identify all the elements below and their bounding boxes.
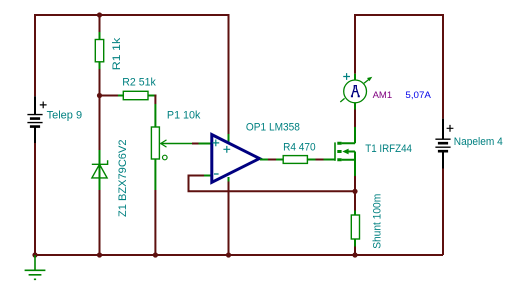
node junction R1 top xyxy=(97,12,102,17)
transistor Q1 T1 IRFZ44 xyxy=(335,127,355,176)
wire ammeter to drain xyxy=(354,110,356,128)
resistor Shunt xyxy=(351,211,359,247)
wire R2 to P1 corner xyxy=(154,95,156,105)
svg-text:Telep 9: Telep 9 xyxy=(47,110,82,122)
zener diode Z1 xyxy=(92,150,108,190)
svg-text:R2 51k: R2 51k xyxy=(122,77,156,89)
svg-text:Z1 BZX79C6V2: Z1 BZX79C6V2 xyxy=(117,140,129,218)
op-amp U1 triangle xyxy=(212,135,260,183)
svg-text:5,07A: 5,07A xyxy=(405,90,431,101)
node junction feedback shunt top xyxy=(352,189,357,194)
svg-text:Napelem 4: Napelem 4 xyxy=(454,136,503,148)
resistor R1 xyxy=(95,32,103,69)
svg-text:R4 470: R4 470 xyxy=(283,142,316,154)
svg-text:R1 1k: R1 1k xyxy=(111,37,123,70)
wire R4 to gate segment xyxy=(316,159,324,161)
node bottom rail junction battery left xyxy=(32,252,37,257)
wire feedback xyxy=(189,176,356,192)
wire op-amp minus input stub xyxy=(204,175,211,177)
svg-text:P1 10k: P1 10k xyxy=(167,110,201,122)
node bottom rail junction op-amp supply xyxy=(226,252,231,257)
wire op-amp V+ stub xyxy=(228,134,230,143)
battery B1 Telep 9 xyxy=(27,96,46,143)
wire zener top xyxy=(99,96,101,151)
ground xyxy=(25,255,46,279)
resistor R2 xyxy=(118,91,156,127)
wire gate lead xyxy=(324,159,336,161)
svg-text:OP1 LM358: OP1 LM358 xyxy=(246,122,300,134)
ammeter AM1 xyxy=(340,73,372,109)
node junction R2 left xyxy=(97,93,102,98)
node bottom rail junction shunt xyxy=(352,252,357,257)
wire op-amp output stub xyxy=(260,159,268,161)
wire bottom rail xyxy=(35,143,443,255)
svg-text:T1 IRFZ44: T1 IRFZ44 xyxy=(365,143,412,155)
svg-text:Shunt 100m: Shunt 100m xyxy=(371,194,383,249)
wire top-left rail xyxy=(35,15,229,134)
wire op-amp output segment xyxy=(268,159,276,161)
node bottom rail junction pot xyxy=(153,252,158,257)
wire R1 to R2 junction xyxy=(100,69,119,96)
wire source to shunt xyxy=(354,176,356,211)
battery B2 Napelem 4 xyxy=(435,119,453,169)
resistor R4 xyxy=(276,156,316,164)
wire top-right rail xyxy=(355,15,443,119)
wire op-amp V- stub xyxy=(228,177,230,182)
node bottom rail junction zener xyxy=(97,252,102,257)
svg-text:AM1: AM1 xyxy=(373,90,393,101)
wire wiper to op-amp xyxy=(192,143,199,145)
wire op-amp plus input stub xyxy=(199,143,212,145)
potentiometer P1 xyxy=(151,127,192,190)
